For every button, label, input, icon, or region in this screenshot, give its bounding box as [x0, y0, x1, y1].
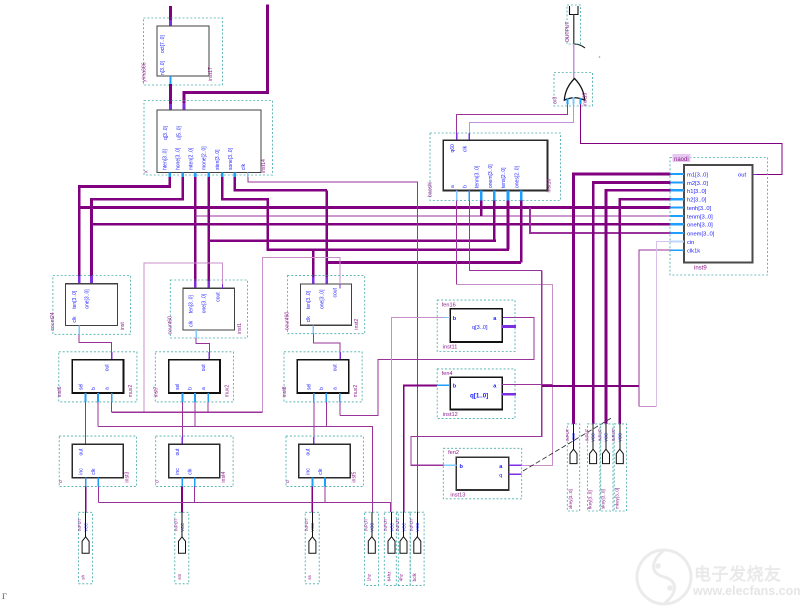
wire net q7 to yima306 top [169, 6, 172, 20]
svg-text:hone[3..0]: hone[3..0] [176, 147, 182, 170]
block count60 inst1 body [183, 288, 234, 330]
svg-text:mone[2..0]: mone[2..0] [202, 146, 208, 170]
wire b net 1hz [97, 402, 99, 426]
svg-text:inst14: inst14 [261, 159, 267, 173]
wire sone junction down to count60 inst2 one [326, 190, 329, 277]
svg-text:b: b [453, 316, 457, 322]
block j0 inst3 body [72, 444, 123, 478]
block mux2 inst7 bounding [155, 352, 233, 402]
svg-text:inst11: inst11 [443, 345, 458, 351]
svg-text:inst8: inst8 [282, 386, 288, 397]
svg-text:skey[3..0]: skey[3..0] [601, 489, 606, 509]
block naodi inst9 body [684, 165, 753, 263]
svg-text:fen2: fen2 [448, 450, 459, 456]
wire output pin to or gate [573, 44, 575, 79]
or-gate or3 inst15 body [564, 79, 584, 101]
wire xkey1 to naodi m1 [574, 174, 671, 424]
wire xkey4 to naodi h2 [620, 199, 671, 424]
input pin 4hz bounding [396, 512, 410, 585]
svg-text:sel: sel [78, 384, 84, 390]
svg-text:INPUT: INPUT [597, 428, 602, 441]
wire mten branch to naodi tenm [195, 215, 670, 217]
block yima306 inst17 body [157, 26, 209, 76]
svg-text:64hz: 64hz [386, 571, 391, 582]
stub naodi out [753, 174, 757, 176]
svg-text:a: a [105, 387, 111, 390]
wire clk1k branch to naodi [542, 385, 639, 387]
svg-text:clk: clk [91, 468, 97, 475]
stubs inst4 [181, 478, 183, 487]
svg-text:INPUT: INPUT [174, 518, 179, 531]
block x inst14 bounding [144, 101, 273, 176]
wire onem thin to naodi [530, 208, 671, 234]
block count60 inst2 bounding [287, 276, 364, 334]
svg-text:n[3..0]: n[3..0] [160, 60, 166, 75]
svg-text:INPUT: INPUT [304, 518, 309, 531]
block j0 inst5 body [299, 444, 350, 478]
svg-text:one[3..0]: one[3..0] [320, 289, 326, 309]
block count60 inst1 bounding [170, 280, 247, 338]
block fen16 inst11 bounding [437, 300, 515, 351]
input pin 1hz body [368, 537, 375, 554]
input pin xkey lead [573, 424, 575, 449]
svg-text:oneh[3..0]: oneh[3..0] [687, 223, 713, 229]
wire sten junction down to count60 inst2 ten [312, 250, 315, 277]
svg-text:fen4: fen4 [442, 371, 453, 377]
svg-text:sone[3..0]: sone[3..0] [228, 147, 234, 170]
svg-text:onem[3..0]: onem[3..0] [687, 232, 715, 238]
svg-text:INPUT: INPUT [585, 428, 590, 441]
svg-text:inst9: inst9 [694, 266, 707, 272]
wire baoshi onem to mone bus [493, 201, 496, 241]
svg-text:a: a [201, 387, 207, 390]
wire inst1 clk from mux2 out [196, 338, 209, 352]
svg-text:ten[3..0]: ten[3..0] [72, 290, 78, 309]
svg-text:inst7: inst7 [153, 386, 159, 397]
wire clk net from inst14 [248, 177, 418, 512]
svg-text:o: o [155, 480, 161, 483]
wire inst3 inc to input pin [85, 487, 87, 513]
wire sel1 to inst3 [85, 402, 87, 437]
svg-text:h1[3..0]: h1[3..0] [687, 189, 707, 195]
svg-text:INPUT: INPUT [363, 518, 368, 531]
wire inst5 inc to input pin [311, 487, 313, 513]
block mux2 inst6 bounding [59, 352, 137, 402]
wire net u bus from top right [184, 5, 268, 104]
stray dot [599, 56, 601, 58]
svg-text:sel: sel [175, 384, 181, 390]
annotation diagonal line [523, 417, 613, 471]
svg-text:sm: sm [177, 574, 182, 580]
wire sone net horizontal [235, 177, 327, 190]
wire sel3 to inst5 [313, 402, 315, 437]
svg-text:OUTPUT: OUTPUT [565, 21, 571, 42]
wire inst17 to inst14 q [169, 76, 171, 84]
stubs inst8 bottom [313, 393, 315, 402]
svg-text:clk: clk [463, 145, 469, 152]
svg-text:ten[3..0]: ten[3..0] [306, 290, 312, 309]
svg-text:one[3..0]: one[3..0] [202, 293, 208, 313]
input pin sh bounding [78, 512, 92, 584]
label naodi highlighted [673, 154, 691, 162]
svg-text:clk: clk [188, 468, 194, 475]
wire baoshi tenm to mten bus [480, 201, 483, 217]
block x inst14 body [157, 110, 261, 173]
svg-text:INPUT: INPUT [77, 518, 82, 531]
wire mone net to count60 inst1 [207, 177, 210, 281]
input pin xkey body [570, 449, 577, 463]
block count24 inst body [66, 284, 118, 326]
input pin ss lead [311, 512, 313, 537]
svg-text:baoshi: baoshi [428, 182, 434, 197]
svg-text:o: o [58, 480, 64, 483]
port stubs inst14 bottom [169, 173, 171, 178]
input pin sh body [82, 537, 89, 554]
svg-text:inst5: inst5 [352, 472, 358, 483]
input pin bclk bounding [410, 512, 424, 585]
wire hten net to count24 [79, 177, 170, 276]
svg-text:inst13: inst13 [450, 493, 465, 499]
svg-text:INPUT: INPUT [409, 518, 414, 531]
svg-text:INPUT: INPUT [565, 428, 570, 441]
svg-text:count24: count24 [50, 312, 56, 331]
svg-text:ss: ss [307, 575, 312, 580]
svg-text:inc: inc [305, 468, 311, 475]
svg-text:yima306: yima306 [142, 62, 148, 82]
svg-text:inst6: inst6 [57, 386, 63, 397]
stub fen4 b [437, 384, 450, 386]
svg-text:inst4: inst4 [221, 472, 227, 483]
svg-text:mux2: mux2 [353, 385, 359, 398]
stub count24 clk [78, 326, 80, 335]
input pin ss bounding [305, 512, 319, 584]
wire mux3 a to fen16 a [339, 402, 341, 415]
input pin xkey bounding [567, 424, 579, 511]
wire inst4 inc to input pin [181, 487, 183, 513]
input pin 1hz lead [371, 512, 373, 537]
svg-text:hten[3..0]: hten[3..0] [163, 149, 169, 170]
input pin 64hz body [388, 537, 395, 554]
input pin skey body [603, 449, 610, 463]
wire inst2 clk from mux3 out [313, 334, 340, 352]
svg-text:b: b [453, 383, 457, 389]
svg-text:a: a [333, 387, 339, 390]
svg-text:out: out [79, 448, 85, 456]
block naodi inst9 bounding [670, 158, 768, 276]
svg-text:q: q [499, 473, 502, 479]
wire a net to cout chain [111, 402, 113, 412]
svg-text:ten[3..0]: ten[3..0] [189, 295, 195, 314]
wire xkey2 to naodi m2 [593, 183, 670, 424]
stubs inst6 bottom [85, 393, 87, 402]
input pin bclk lead [416, 512, 418, 537]
stubs baoshi bottom [456, 191, 458, 201]
svg-text:inc: inc [175, 468, 181, 475]
svg-text:one[3..0]: one[3..0] [84, 289, 90, 309]
stubs naodi left ports [671, 173, 685, 175]
block yima306 inst17 bounding [144, 18, 223, 85]
svg-text:inst3: inst3 [125, 472, 131, 483]
svg-text:count60: count60 [285, 312, 291, 331]
svg-text:fen16: fen16 [442, 302, 456, 308]
stub fen16 b [443, 316, 450, 318]
svg-text:clk1k: clk1k [687, 249, 700, 255]
block mux2 inst8 body [297, 360, 348, 393]
svg-text:naodi: naodi [674, 157, 689, 163]
wire baoshi tens to sten bus [507, 201, 510, 250]
svg-text:inst10: inst10 [547, 179, 553, 193]
input pin 64hz bounding [384, 512, 398, 585]
input pin mkey body [616, 449, 623, 463]
wire baoshi ones to sone bus [520, 201, 523, 263]
wire hone net to count24 [92, 177, 183, 276]
svg-text:电子发烧友: 电子发烧友 [694, 564, 782, 584]
or gate input stubs [567, 98, 569, 105]
wire fen4 a right [502, 383, 552, 385]
svg-text:mux2: mux2 [224, 385, 230, 398]
svg-text:mten[2..0]: mten[2..0] [189, 147, 195, 170]
wire xkey3 to naodi h1 [606, 190, 671, 424]
svg-text:b: b [91, 387, 97, 390]
wire or input1 to baoshi q60 [457, 105, 568, 134]
input pin sm body [179, 537, 186, 554]
svg-text:INPUT: INPUT [611, 428, 616, 441]
svg-text:mux2: mux2 [128, 385, 134, 398]
wire 4hz to fen4 b [404, 385, 437, 512]
svg-text:sh: sh [80, 575, 85, 580]
wire baoshi a to fen2 a [456, 201, 458, 285]
svg-text:ones[2..0]: ones[2..0] [515, 165, 521, 188]
svg-text:inst12: inst12 [443, 412, 458, 418]
input pin skey bounding [601, 424, 613, 511]
svg-text:clk: clk [241, 163, 247, 170]
block mux2 inst6 body [72, 360, 123, 393]
svg-text:out: out [333, 364, 339, 372]
input pin mkey bounding [614, 424, 626, 511]
svg-text:m2[3..0]: m2[3..0] [687, 181, 708, 187]
block baoshi inst10 bounding [430, 133, 561, 201]
svg-text:cout: cout [215, 292, 221, 302]
input pin 64hz lead [391, 512, 393, 537]
svg-text:tenh[3..0]: tenh[3..0] [687, 206, 712, 212]
svg-text:sten[3..0]: sten[3..0] [215, 149, 221, 170]
wire mone branch to baoshi onem [209, 239, 496, 242]
wire inst2 cout chain [339, 284, 341, 288]
wire baoshi b to clk1k net [469, 201, 541, 271]
block fen2 inst13 bounding [443, 448, 521, 499]
stub fen16 a [502, 316, 507, 318]
block mux2 inst8 bounding [284, 352, 362, 402]
svg-text:Γ: Γ [2, 591, 7, 601]
output pin symbol [570, 6, 579, 15]
input pin 4hz body [400, 537, 407, 554]
wire inst1 cout chain [222, 284, 224, 288]
input pin skey lead [605, 424, 607, 449]
svg-text:b: b [460, 464, 464, 470]
input pin sh lead [85, 512, 87, 537]
block fen4 inst12 bounding [437, 369, 515, 419]
stub fen2 b [443, 464, 456, 466]
input pin bclk body [414, 537, 421, 554]
svg-text:h2[3..0]: h2[3..0] [687, 198, 707, 204]
wire sten net [222, 177, 509, 250]
svg-text:q60: q60 [450, 144, 456, 153]
block baoshi inst10 body [443, 140, 547, 190]
svg-text:clk: clk [189, 320, 195, 327]
input pin fkey body [590, 449, 597, 463]
block count60 inst2 body [301, 284, 352, 325]
svg-text:inst2: inst2 [354, 319, 360, 330]
svg-text:tenm[3..0]: tenm[3..0] [687, 215, 713, 221]
svg-text:count60: count60 [168, 316, 174, 335]
svg-text:q[3..0]: q[3..0] [163, 125, 169, 140]
svg-text:x: x [144, 170, 150, 173]
watermark logo [637, 550, 800, 604]
output pin bounding [567, 5, 581, 44]
svg-text:clk: clk [72, 316, 78, 323]
svg-text:oct[7..0]: oct[7..0] [160, 35, 166, 53]
input pin 4hz lead [403, 512, 405, 537]
svg-text:xkey[3..0]: xkey[3..0] [568, 489, 573, 509]
input pin fkey lead [592, 424, 594, 449]
wire mten net to count60 inst1 [194, 177, 197, 281]
input pin sm bounding [175, 512, 189, 584]
svg-text:or3: or3 [553, 97, 559, 104]
wire 64hz to fen16 b [391, 317, 443, 512]
block fen16 inst11 body [450, 309, 502, 342]
svg-text:INPUT: INPUT [383, 518, 388, 531]
svg-text:inst17: inst17 [208, 67, 214, 81]
svg-text:1hz: 1hz [367, 573, 372, 581]
svg-text:q[3..0]: q[3..0] [472, 325, 488, 331]
svg-text:inst15: inst15 [583, 92, 589, 106]
svg-text:cout: cout [333, 287, 339, 297]
stub fen2 q [509, 473, 522, 475]
block j0 inst4 body [169, 444, 220, 478]
block fen2 inst13 body [456, 457, 508, 490]
or-gate or3 inst15 bounding [554, 73, 593, 107]
svg-text:4hz: 4hz [398, 573, 403, 581]
svg-text:q[1..0]: q[1..0] [470, 392, 488, 399]
svg-text:inst1: inst1 [237, 323, 243, 334]
svg-text:clk: clk [306, 316, 312, 323]
wire cin branch [638, 386, 640, 406]
block mux2 inst7 body [169, 360, 220, 393]
svg-text:mkey[3..0]: mkey[3..0] [614, 488, 619, 509]
svg-text:bclk: bclk [412, 573, 417, 582]
svg-text:inc: inc [79, 468, 85, 475]
svg-text:cin: cin [687, 240, 694, 246]
svg-text:out: out [201, 364, 207, 372]
wire sel2 to inst4 [181, 402, 183, 437]
input pin mkey lead [619, 424, 621, 449]
input pin fkey bounding [588, 424, 600, 511]
svg-text:out: out [105, 364, 111, 372]
svg-text:o: o [285, 480, 291, 483]
wire clk row net to 64hz pin [97, 487, 99, 503]
stubs inst7 bottom [181, 393, 183, 402]
stub inst2 clk [312, 325, 314, 333]
svg-text:www.elecfans.com: www.elecfans.com [692, 584, 800, 598]
wire hten branch to naodi tenh [79, 206, 670, 209]
svg-text:b: b [319, 387, 325, 390]
block j0 inst5 bounding [286, 436, 363, 487]
input pin ss body [309, 537, 316, 554]
svg-text:u[5..0]: u[5..0] [177, 125, 183, 140]
stub fen4 q bus [502, 393, 516, 396]
block j0 inst4 bounding [156, 436, 233, 487]
stub fen2 a [509, 464, 522, 466]
svg-text:out: out [305, 448, 311, 456]
svg-text:sel: sel [307, 384, 313, 390]
wire sone branch to baoshi ones [327, 261, 521, 264]
svg-text:m1[3..0]: m1[3..0] [687, 173, 708, 179]
svg-text:inst: inst [120, 322, 126, 331]
block count24 inst bounding [53, 276, 131, 335]
svg-text:fkey[3..0]: fkey[3..0] [588, 490, 593, 509]
stub fen16 q bus [502, 325, 516, 328]
svg-text:out: out [738, 173, 746, 179]
wire or input2 to baoshi clk [469, 105, 573, 134]
svg-text:b: b [463, 185, 469, 188]
wire or input3 to naodi out [581, 105, 783, 175]
svg-text:clk: clk [318, 468, 324, 475]
wire count24 clk from mux1 out [79, 334, 112, 352]
svg-text:INPUT: INPUT [395, 518, 400, 531]
svg-text:tens[2..0]: tens[2..0] [501, 167, 507, 188]
svg-text:b: b [188, 387, 194, 390]
stub inst1 clk [195, 330, 197, 338]
input pin 1hz bounding [365, 512, 379, 585]
svg-text:onem[3..0]: onem[3..0] [488, 164, 494, 188]
wire hone branch to naodi oneh [92, 223, 671, 226]
block j0 inst3 bounding [59, 436, 136, 487]
svg-text:tenm[3..0]: tenm[3..0] [475, 165, 481, 188]
svg-text:a: a [450, 185, 456, 188]
stubs inst5 [312, 478, 314, 487]
block fen4 inst12 body [450, 377, 502, 409]
svg-text:out: out [175, 448, 181, 456]
stubs inst3 [85, 478, 87, 487]
input pin sm lead [181, 512, 183, 537]
